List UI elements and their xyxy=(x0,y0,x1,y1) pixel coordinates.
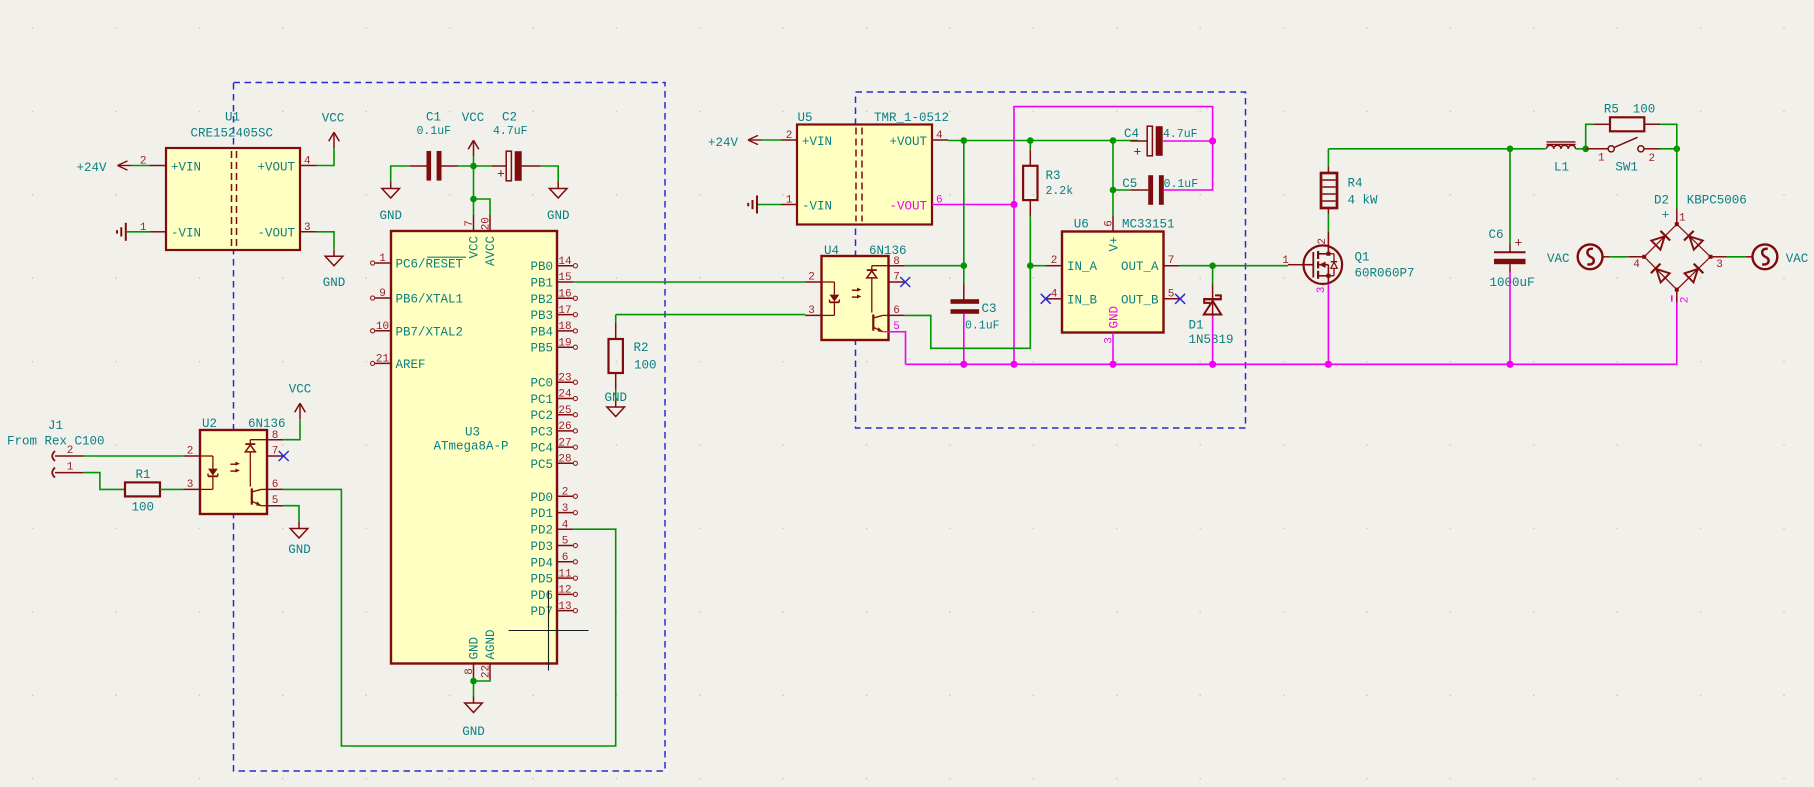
svg-text:1: 1 xyxy=(1679,212,1686,224)
svg-text:1: 1 xyxy=(379,253,386,265)
svg-text:7: 7 xyxy=(464,220,476,227)
junction below U3 xyxy=(470,678,477,685)
svg-text:7: 7 xyxy=(272,446,279,458)
svg-text:4: 4 xyxy=(304,156,311,168)
junction bus at D1 xyxy=(1209,361,1216,368)
svg-text:C2: C2 xyxy=(502,111,517,125)
svg-text:PD2: PD2 xyxy=(530,524,553,538)
svg-text:16: 16 xyxy=(558,289,571,301)
editor crosshair cursor xyxy=(509,591,589,671)
svg-text:2: 2 xyxy=(786,130,793,142)
wire D1 bottom to ground bus xyxy=(1212,316,1214,365)
wire R2 bottom to GND xyxy=(615,389,617,400)
wire VAC left to D2 pin 4 xyxy=(1609,256,1628,258)
wire C6 bottom to ground bus xyxy=(1509,272,1511,364)
svg-text:SW1: SW1 xyxy=(1615,161,1638,175)
wire VCC node down to U3 supply pins xyxy=(474,166,491,215)
svg-text:GND: GND xyxy=(547,209,570,223)
svg-text:0.1uF: 0.1uF xyxy=(1164,178,1199,191)
svg-text:24: 24 xyxy=(558,389,572,401)
wire U3 PD2 to U2 pin 6 (long route) xyxy=(283,489,615,746)
svg-text:U6: U6 xyxy=(1074,218,1089,232)
svg-text:GND: GND xyxy=(288,543,311,557)
svg-text:25: 25 xyxy=(558,405,571,417)
svg-text:100: 100 xyxy=(634,359,657,373)
svg-text:1: 1 xyxy=(67,461,74,473)
svg-text:AVCC: AVCC xyxy=(484,236,498,266)
svg-text:PB4: PB4 xyxy=(530,325,553,339)
svg-text:AREF: AREF xyxy=(396,358,426,372)
svg-text:5: 5 xyxy=(562,536,569,548)
svg-text:6: 6 xyxy=(562,552,569,564)
svg-text:3: 3 xyxy=(1716,259,1723,271)
svg-text:2: 2 xyxy=(1317,238,1329,245)
svg-text:PB2: PB2 xyxy=(530,293,553,307)
wire R4 top to AC rail xyxy=(1327,149,1329,167)
wire U6 GND pin to ground bus xyxy=(1112,349,1114,365)
wire U2 pin 5 to GND xyxy=(283,506,299,522)
power symbol VCC above U2 xyxy=(289,383,312,420)
svg-text:5: 5 xyxy=(1168,288,1175,300)
svg-text:4.7uF: 4.7uF xyxy=(493,125,528,138)
wire U4 pin 8 to +VOUT net xyxy=(905,265,964,267)
power symbol GND right of C2 xyxy=(547,182,570,223)
svg-text:V+: V+ xyxy=(1107,237,1121,252)
wire J1 pin 1 to R1 xyxy=(84,473,125,490)
svg-text:IN_A: IN_A xyxy=(1067,260,1098,274)
junction L1 / R5 / SW1 xyxy=(1582,146,1589,153)
wire PB3 row to R2 top xyxy=(615,315,617,323)
junction at C4 right plate xyxy=(1209,137,1216,144)
junction bus at Q1 source xyxy=(1325,361,1332,368)
bridge rectifier D2 KBPC5006 xyxy=(1628,193,1747,303)
svg-text:4.7uF: 4.7uF xyxy=(1163,128,1198,141)
inductor L1 xyxy=(1547,142,1576,175)
svg-text:R3: R3 xyxy=(1046,169,1061,183)
svg-text:C6: C6 xyxy=(1489,228,1504,242)
capacitor C6 1000uF (polarized) xyxy=(1489,228,1535,290)
wire D2 pin 3 to VAC right xyxy=(1727,256,1747,258)
junction SW1 / R5 / D2 xyxy=(1674,146,1681,153)
svg-text:U1: U1 xyxy=(225,111,240,125)
svg-text:VCC: VCC xyxy=(322,112,345,126)
junction VCC node xyxy=(470,163,477,170)
svg-text:8: 8 xyxy=(893,256,900,268)
junction at C6 tap xyxy=(1507,146,1514,153)
svg-text:+VOUT: +VOUT xyxy=(889,135,927,149)
svg-text:28: 28 xyxy=(558,454,571,466)
svg-text:1: 1 xyxy=(1598,153,1605,165)
svg-text:5: 5 xyxy=(893,321,900,333)
wire U3 GND/AGND to ground xyxy=(474,680,491,697)
junction +VOUT at R3 column xyxy=(1027,137,1034,144)
AC source VAC (right) xyxy=(1746,244,1808,269)
svg-text:PB5: PB5 xyxy=(530,342,553,356)
junction +VOUT at C3 column xyxy=(961,137,968,144)
wire +VOUT column down to C5 and V+ xyxy=(1113,141,1130,216)
svg-text:GND: GND xyxy=(468,637,482,660)
svg-text:IN_B: IN_B xyxy=(1067,293,1098,307)
wire IN_A node to U6 pin 2 xyxy=(1030,265,1046,267)
wire +24V to U1 pin 2 xyxy=(131,165,150,167)
svg-text:2: 2 xyxy=(562,487,569,499)
svg-text:U2: U2 xyxy=(202,417,217,431)
svg-text:+VOUT: +VOUT xyxy=(257,160,295,174)
svg-text:PD5: PD5 xyxy=(530,573,553,587)
wire L1 to SW1 node xyxy=(1576,148,1586,150)
svg-text:8: 8 xyxy=(272,430,279,442)
capacitor C2 4.7uF (polarized) xyxy=(492,111,541,182)
svg-text:-VOUT: -VOUT xyxy=(889,199,927,213)
svg-text:2: 2 xyxy=(808,272,815,284)
svg-text:6: 6 xyxy=(272,479,279,491)
svg-text:D2: D2 xyxy=(1654,193,1669,207)
wire R5 bypass loop left xyxy=(1586,124,1594,149)
svg-text:VCC: VCC xyxy=(468,236,482,259)
svg-text:PB7/XTAL2: PB7/XTAL2 xyxy=(396,325,464,339)
resistor R2 100 xyxy=(609,323,657,390)
wire U2 pin 8 to VCC xyxy=(283,420,300,440)
power symbol VCC above C1/C2 xyxy=(462,111,485,156)
svg-text:VAC: VAC xyxy=(1786,252,1809,266)
junction +VOUT at C5/V+ column xyxy=(1110,137,1117,144)
svg-text:2: 2 xyxy=(1680,297,1692,304)
svg-text:PB0: PB0 xyxy=(530,260,553,274)
svg-text:1: 1 xyxy=(1282,255,1289,267)
wire D2 minus to ground bus xyxy=(1676,303,1678,365)
svg-text:PD1: PD1 xyxy=(530,507,553,521)
svg-text:+: + xyxy=(497,167,505,182)
svg-text:-VIN: -VIN xyxy=(171,227,201,241)
svg-text:6: 6 xyxy=(936,195,943,207)
svg-text:PB3: PB3 xyxy=(530,309,553,323)
svg-text:PC5: PC5 xyxy=(530,458,553,472)
svg-text:8: 8 xyxy=(464,668,476,675)
wire C4 right plate to magenta column xyxy=(1163,140,1213,142)
wire +24V to U5 pin 2 xyxy=(762,139,782,141)
wire VCC symbol stem xyxy=(473,156,475,166)
wire R1 to U2 pin 3 xyxy=(160,488,184,490)
svg-text:7: 7 xyxy=(1168,255,1175,267)
svg-text:ATmega8A-P: ATmega8A-P xyxy=(434,440,509,454)
svg-text:TMR_1-0512: TMR_1-0512 xyxy=(874,111,949,125)
svg-text:3: 3 xyxy=(808,305,815,317)
svg-text:+: + xyxy=(1134,145,1142,160)
svg-text:27: 27 xyxy=(558,437,571,449)
wire -VOUT to magenta node xyxy=(948,204,1014,206)
wire OUT_A to Q1 gate xyxy=(1180,265,1288,267)
wire C2 right to GND xyxy=(541,166,559,182)
svg-text:L1: L1 xyxy=(1554,161,1569,175)
svg-text:CRE152405SC: CRE152405SC xyxy=(191,127,274,141)
junction bus at U6 GND xyxy=(1109,361,1116,368)
wire -VOUT node down to ground bus xyxy=(1013,205,1015,365)
power symbol GND below U2 xyxy=(288,522,311,557)
wire R5 bypass loop right xyxy=(1660,124,1677,149)
wire GNDPWR to U5 pin 1 xyxy=(758,204,781,206)
svg-text:MC33151: MC33151 xyxy=(1122,218,1175,232)
svg-text:OUT_B: OUT_B xyxy=(1121,293,1159,307)
svg-text:12: 12 xyxy=(558,585,571,597)
wire U4 pin 5 to ground bus xyxy=(904,332,907,365)
svg-text:D1: D1 xyxy=(1189,318,1204,332)
wire U3 PB1 to U4 pin 2 xyxy=(573,281,805,283)
svg-text:5: 5 xyxy=(272,495,279,507)
diode D1 1N5819 (Schottky) xyxy=(1189,285,1234,348)
svg-text:19: 19 xyxy=(558,337,571,349)
svg-text:C4: C4 xyxy=(1124,127,1139,141)
svg-text:22: 22 xyxy=(481,665,493,678)
svg-text:PC2: PC2 xyxy=(530,409,553,423)
svg-text:+VIN: +VIN xyxy=(171,160,201,174)
svg-text:2.2k: 2.2k xyxy=(1046,185,1074,198)
resistor R1 100 xyxy=(125,468,160,515)
wire D1 top xyxy=(1212,266,1214,285)
svg-text:3: 3 xyxy=(304,222,311,234)
svg-text:100: 100 xyxy=(1633,102,1656,116)
ground bus wire (-VOUT net) xyxy=(906,363,1677,365)
svg-text:23: 23 xyxy=(558,372,571,384)
svg-text:13: 13 xyxy=(558,601,571,613)
gate driver U6 MC33151 xyxy=(1046,216,1180,349)
no-connect X on U6 pin 5 xyxy=(1175,294,1185,304)
svg-text:VCC: VCC xyxy=(462,111,485,125)
svg-text:AGND: AGND xyxy=(484,629,498,659)
svg-text:+24V: +24V xyxy=(77,161,108,175)
svg-text:4: 4 xyxy=(936,130,943,142)
svg-text:10: 10 xyxy=(376,321,389,333)
svg-text:11: 11 xyxy=(558,568,572,580)
transistor Q1 60R060P7 (N-MOSFET) xyxy=(1282,232,1414,293)
svg-text:GND: GND xyxy=(1107,306,1121,329)
svg-text:0.1uF: 0.1uF xyxy=(965,319,1000,332)
wire Q1 drain to R4 xyxy=(1327,214,1329,232)
svg-text:+24V: +24V xyxy=(708,136,739,150)
svg-text:U3: U3 xyxy=(465,426,480,440)
microcontroller U3 ATmega8A-P xyxy=(371,215,578,680)
svg-text:1000uF: 1000uF xyxy=(1490,276,1535,290)
svg-text:6: 6 xyxy=(1104,220,1116,227)
svg-text:26: 26 xyxy=(558,421,571,433)
junction bus at C3 xyxy=(960,361,967,368)
power symbol GND below U3 xyxy=(462,697,485,740)
wire AC rail R4 to L1 xyxy=(1328,148,1545,150)
wire U5 +VOUT rail to C4 xyxy=(948,140,1138,142)
svg-text:GND: GND xyxy=(604,391,627,405)
svg-text:Q1: Q1 xyxy=(1355,251,1370,265)
svg-text:PB1: PB1 xyxy=(530,277,553,291)
svg-text:4: 4 xyxy=(1051,288,1058,300)
svg-text:60R060P7: 60R060P7 xyxy=(1355,267,1415,281)
capacitor C1 0.1uF xyxy=(410,111,458,181)
wire R2 node to U4 pin 3 xyxy=(616,314,806,316)
wire C3 bottom to ground bus xyxy=(963,313,965,364)
AC source VAC (left) xyxy=(1547,244,1609,269)
svg-text:-VOUT: -VOUT xyxy=(257,227,295,241)
svg-text:From Rex C100: From Rex C100 xyxy=(7,435,105,449)
wire C3 column vertical xyxy=(963,141,965,284)
svg-text:KBPC5006: KBPC5006 xyxy=(1687,193,1747,207)
svg-text:R2: R2 xyxy=(634,341,649,355)
svg-text:PD7: PD7 xyxy=(530,605,553,619)
junction bus at C6 xyxy=(1506,361,1513,368)
power symbol GND below R2 xyxy=(604,391,627,417)
svg-text:PC6/RESET: PC6/RESET xyxy=(396,258,464,272)
svg-text:+: + xyxy=(1661,207,1669,222)
svg-text:6: 6 xyxy=(893,305,900,317)
svg-text:6N136: 6N136 xyxy=(248,417,286,431)
optocoupler U4 6N136 xyxy=(805,244,906,340)
no-connect X on U4 pin 7 xyxy=(900,277,910,287)
svg-text:15: 15 xyxy=(558,272,571,284)
no-connect X on U6 pin 4 xyxy=(1041,294,1051,304)
junction -VOUT node xyxy=(1010,201,1017,208)
svg-text:C1: C1 xyxy=(426,111,441,125)
svg-text:1N5819: 1N5819 xyxy=(1189,333,1234,347)
svg-text:6N136: 6N136 xyxy=(869,244,907,258)
svg-text:3: 3 xyxy=(1104,337,1116,344)
svg-text:VCC: VCC xyxy=(289,383,312,397)
svg-text:R4: R4 xyxy=(1348,176,1363,190)
wire R3 bottom to IN_A node xyxy=(1029,216,1031,266)
wire -VOUT up and over to C4/C5 right side xyxy=(1014,107,1213,205)
svg-text:U4: U4 xyxy=(824,244,839,258)
svg-text:18: 18 xyxy=(558,321,571,333)
wire U1 pin 3 to GND xyxy=(317,232,335,250)
wire SW1 to bridge node xyxy=(1660,148,1677,150)
power symbol VCC at U1 +VOUT xyxy=(322,112,345,149)
svg-text:GND: GND xyxy=(323,276,346,290)
power label +24V (U1 input) xyxy=(77,161,132,175)
svg-text:20: 20 xyxy=(481,217,493,230)
junction at U3 VCC/AVCC xyxy=(470,196,477,203)
svg-text:PB6/XTAL1: PB6/XTAL1 xyxy=(396,293,464,307)
wire U1 pin 4 to VCC xyxy=(317,148,335,165)
svg-text:PC0: PC0 xyxy=(530,377,553,391)
junction R3 / IN_A node xyxy=(1027,262,1034,269)
junction bus at -VOUT column xyxy=(1010,361,1017,368)
svg-text:PC4: PC4 xyxy=(530,442,553,456)
DC-DC converter U1 CRE152405SC xyxy=(140,111,317,251)
power symbol GNDPWR at U1 -VIN xyxy=(117,223,126,241)
junction OUT_A / D1 xyxy=(1209,262,1216,269)
svg-text:PD4: PD4 xyxy=(530,556,553,570)
svg-text:PD6: PD6 xyxy=(530,589,553,603)
svg-text:GND: GND xyxy=(379,209,402,223)
junction U4 pin8 / C3 / IN_A node xyxy=(961,262,968,269)
dashed group box (left MCU section) xyxy=(234,83,666,772)
svg-text:14: 14 xyxy=(558,256,572,268)
capacitor C5 0.1uF xyxy=(1122,175,1198,205)
svg-text:2: 2 xyxy=(187,446,194,458)
power label +24V (U5 input) xyxy=(708,135,762,150)
svg-text:4: 4 xyxy=(1633,259,1640,271)
wire J1 pin 2 to U2 pin 2 xyxy=(84,455,184,457)
wire C1 right to C2 left with VCC tap xyxy=(458,165,492,167)
svg-text:U5: U5 xyxy=(798,111,813,125)
power symbol GNDPWR at U5 -VIN xyxy=(748,196,757,214)
switch SW1 xyxy=(1586,137,1660,174)
capacitor C4 4.7uF (polarized) xyxy=(1124,126,1198,159)
svg-text:C3: C3 xyxy=(982,302,997,316)
svg-text:100: 100 xyxy=(132,501,155,515)
power symbol GND left of C1 xyxy=(379,182,402,223)
svg-text:OUT_A: OUT_A xyxy=(1121,260,1159,274)
svg-text:GND: GND xyxy=(462,725,485,739)
power symbol GND at U1 -VOUT xyxy=(323,250,346,290)
svg-text:R1: R1 xyxy=(136,468,151,482)
svg-text:2: 2 xyxy=(1051,255,1058,267)
wire GNDPWR to U1 pin 1 xyxy=(127,231,150,233)
svg-text:R5: R5 xyxy=(1604,102,1619,116)
svg-text:C5: C5 xyxy=(1122,177,1137,191)
svg-text:3: 3 xyxy=(1316,287,1328,294)
wire Q1 source to ground bus xyxy=(1327,284,1329,364)
svg-text:4 kW: 4 kW xyxy=(1348,194,1379,208)
dashed group box (driver section) xyxy=(856,92,1246,428)
connector J1 From Rex C100 xyxy=(7,419,105,478)
svg-text:VAC: VAC xyxy=(1547,252,1570,266)
svg-text:+: + xyxy=(1515,236,1523,251)
svg-text:+VIN: +VIN xyxy=(802,135,832,149)
wire GND to C1 left xyxy=(391,166,410,182)
svg-text:4: 4 xyxy=(562,519,569,531)
svg-text:PC1: PC1 xyxy=(530,393,553,407)
svg-text:3: 3 xyxy=(187,479,194,491)
svg-text:3: 3 xyxy=(562,503,569,515)
wire node down to D2 + terminal xyxy=(1676,149,1678,209)
capacitor C3 0.1uF xyxy=(951,284,1000,333)
junction at C5 left xyxy=(1110,187,1117,194)
svg-text:1: 1 xyxy=(786,195,793,207)
resistor R3 2.2k xyxy=(1023,150,1073,216)
svg-text:0.1uF: 0.1uF xyxy=(417,125,452,138)
svg-text:2: 2 xyxy=(1648,153,1655,165)
svg-text:-VIN: -VIN xyxy=(802,199,832,213)
DC-DC converter U5 TMR_1-0512 xyxy=(781,111,949,225)
svg-text:21: 21 xyxy=(376,353,390,365)
svg-text:J1: J1 xyxy=(48,419,63,433)
svg-text:PD0: PD0 xyxy=(530,491,553,505)
no-connect X on U2 pin 7 xyxy=(279,451,289,461)
svg-text:17: 17 xyxy=(558,305,571,317)
svg-text:9: 9 xyxy=(379,288,386,300)
wire C6 top to AC rail xyxy=(1509,149,1511,245)
svg-text:7: 7 xyxy=(893,272,900,284)
wire +VOUT to R3 top xyxy=(1029,141,1031,150)
resistor R4 4 kW (load) xyxy=(1321,166,1378,214)
optocoupler U2 6N136 xyxy=(184,417,286,514)
svg-text:PC3: PC3 xyxy=(530,425,553,439)
wire U4 pin 6 to IN_A route xyxy=(905,266,1031,349)
resistor R5 100 xyxy=(1594,102,1660,131)
svg-text:PD3: PD3 xyxy=(530,540,553,554)
